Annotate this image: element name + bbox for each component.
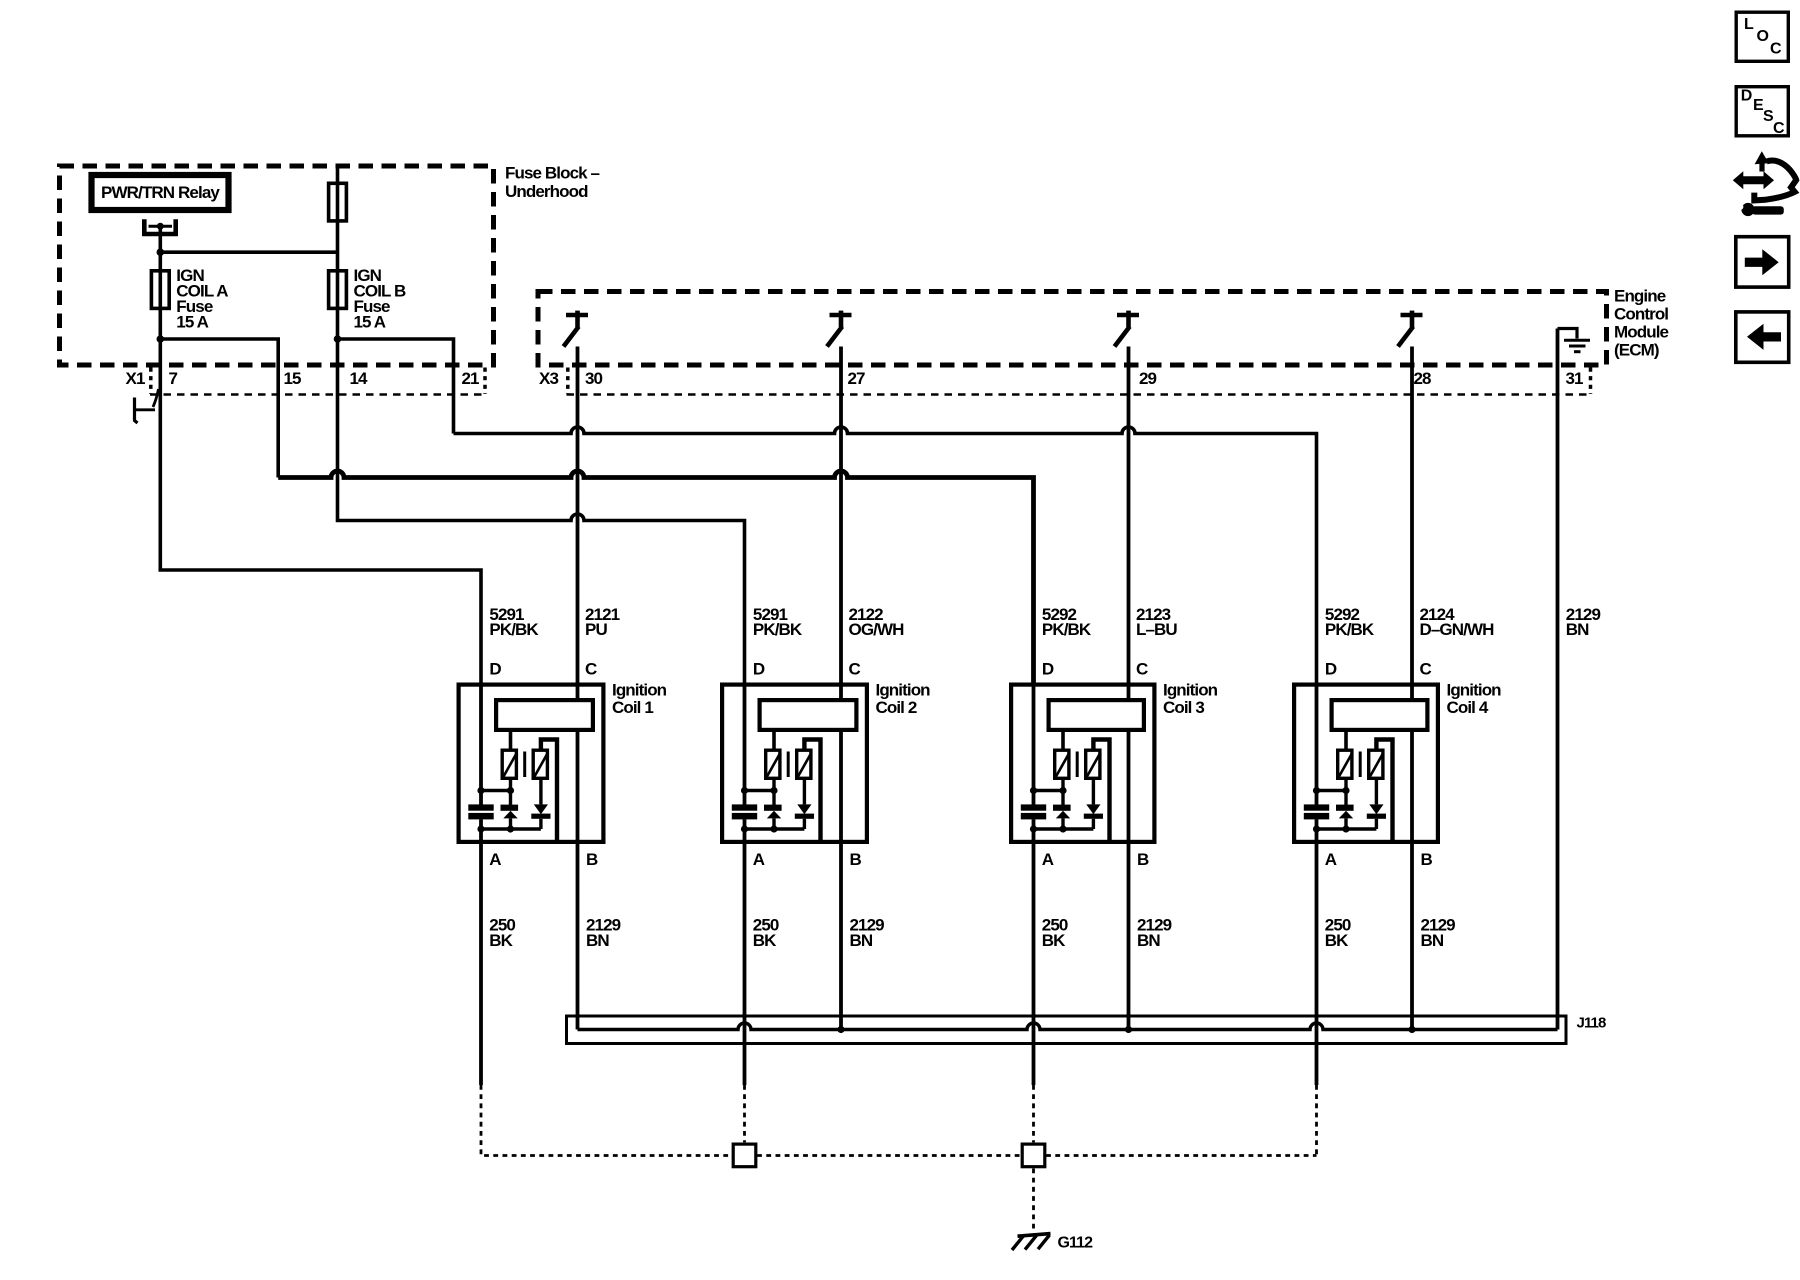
label: Ignition Coil 4 [1447, 681, 1502, 717]
svg-text:C: C [1773, 120, 1785, 137]
label: IGN COIL A Fuse 15 A [176, 266, 228, 332]
junction dot fuse A output [157, 335, 165, 343]
svg-text:Engine: Engine [1614, 287, 1666, 306]
svg-text:28: 28 [1414, 369, 1432, 388]
svg-text:Ignition: Ignition [612, 681, 667, 700]
junction dot at relay feed split [157, 248, 165, 256]
svg-text:Underhood: Underhood [505, 182, 588, 201]
in-line connector symbol on circuit 5291 at X1 pin 7 [133, 389, 159, 423]
svg-text:7: 7 [169, 369, 178, 388]
svg-text:D: D [1042, 659, 1054, 678]
connector tick X1 [149, 368, 153, 395]
svg-text:BN: BN [1566, 620, 1589, 639]
wire: coil 2 pin A ground lead (circuit 250 BK) [743, 844, 747, 1085]
svg-text:B: B [586, 850, 598, 869]
svg-text:PK/BK: PK/BK [753, 620, 803, 639]
svg-text:J118: J118 [1577, 1014, 1606, 1031]
svg-text:PU: PU [585, 620, 607, 639]
connector row separator (thin dashed) under fuse block [150, 393, 486, 395]
svg-text:PK/BK: PK/BK [1325, 620, 1375, 639]
label: IGN COIL B Fuse 15 A [354, 266, 407, 332]
icon: flow/navigation arrows with wrench [1733, 151, 1796, 216]
svg-text:D: D [1325, 659, 1337, 678]
dashed ground lead from coil 2 pin A [743, 1085, 746, 1142]
svg-text:C: C [1136, 659, 1148, 678]
connector row separator (thin dashed) under ECM [567, 393, 1593, 395]
svg-text:B: B [1137, 850, 1149, 869]
wire: fuse A pin 15 branch down [160, 339, 278, 478]
splice J118 internal bus wire with hops over coil A leads [578, 1023, 1558, 1029]
ECM driver (output transistor) pin 27 [827, 311, 852, 347]
svg-text:D: D [489, 659, 501, 678]
pin letter labels coil 4 [1325, 659, 1433, 869]
ECM driver (output transistor) pin 29 [1115, 311, 1140, 347]
Engine Control Module (ECM) dashed boundary [538, 292, 1607, 366]
fuse F1 IGN COIL A Fuse 15 A [151, 271, 169, 309]
label: Engine Control Module (ECM) [1614, 287, 1669, 360]
pin labels ECM connector X3 [539, 369, 1583, 388]
svg-text:C: C [849, 659, 861, 678]
svg-text:BK: BK [1325, 931, 1349, 950]
svg-text:Coil 3: Coil 3 [1163, 698, 1204, 717]
svg-text:15 A: 15 A [354, 313, 386, 332]
svg-text:PK/BK: PK/BK [489, 620, 539, 639]
svg-text:BK: BK [489, 931, 513, 950]
svg-text:BN: BN [1421, 931, 1444, 950]
svg-text:D: D [1741, 88, 1752, 105]
svg-text:PWR/TRN Relay: PWR/TRN Relay [101, 183, 220, 202]
label: 250 BK / 2129 BN below coil 2 [753, 916, 884, 950]
svg-text:BK: BK [753, 931, 777, 950]
svg-text:21: 21 [462, 369, 480, 388]
svg-text:30: 30 [585, 369, 603, 388]
pin letter labels coil 1 [489, 659, 598, 869]
icon: back arrow box [1736, 312, 1789, 362]
junction dot coil 3 B at J118 [1125, 1026, 1132, 1033]
wire: fuse B pin 14 to ignition coil 2 pin D [338, 339, 745, 683]
wire: relay feed to coil B branch [160, 250, 337, 254]
ignition coil 1 [459, 683, 604, 1030]
wire: pin 15 run to ignition coil 3 pin D (thick, hops over crossing wires) [278, 471, 1033, 683]
relay K1 PWR/TRN Relay [92, 175, 229, 210]
svg-text:(ECM): (ECM) [1614, 341, 1659, 360]
ground connector (coil 2 lead) [733, 1144, 756, 1167]
svg-text:X1: X1 [126, 369, 145, 388]
junction dot coil 2 B at J118 [837, 1026, 844, 1033]
icon: DESC box [1736, 87, 1788, 137]
svg-text:15: 15 [284, 369, 302, 388]
svg-text:D: D [753, 659, 765, 678]
svg-text:B: B [850, 850, 862, 869]
label: Ignition Coil 3 [1163, 681, 1218, 717]
svg-text:B: B [1421, 850, 1433, 869]
wire circuit labels above ignition coils [489, 605, 1600, 639]
label: 250 BK / 2129 BN below coil 3 [1042, 916, 1172, 950]
fuse element upper on coil B line [329, 183, 347, 221]
fuse F2 IGN COIL B Fuse 15 A [329, 271, 347, 309]
svg-text:D–GN/WH: D–GN/WH [1420, 620, 1495, 639]
connector tick right of pin 31 [1589, 368, 1593, 395]
icon: LOC box [1736, 12, 1788, 61]
wire: fuse B pin 21 branch [338, 339, 454, 434]
junction dot fuse B output [334, 335, 342, 343]
svg-text:Control: Control [1614, 305, 1668, 324]
ECM driver (output transistor) pin 28 [1398, 311, 1423, 347]
dashed lead from connector down to ground G112 [1032, 1169, 1035, 1232]
wire: coil 4 pin A ground lead (circuit 250 BK) [1315, 844, 1319, 1085]
svg-text:14: 14 [350, 369, 369, 388]
wire: fuse A pin 7 to ignition coil 1 pin D (circuit 5291) [160, 339, 481, 683]
label: 250 BK / 2129 BN below coil 1 [489, 916, 620, 950]
svg-text:Ignition: Ignition [1163, 681, 1218, 700]
ignition coil 3 [1011, 683, 1154, 1030]
dashed ground lead from coil 4 pin A [1315, 1085, 1318, 1156]
svg-text:L: L [1744, 16, 1754, 33]
wire: coil 3 pin A ground lead (circuit 250 BK) [1032, 844, 1036, 1085]
wire: pin 21 run to ignition coil 4 pin D [454, 427, 1317, 683]
svg-text:Ignition: Ignition [876, 681, 931, 700]
wire: ECM pin 28 to coil 4 pin C (circuit 2124 D-GN/WH) [1410, 347, 1414, 703]
svg-text:Module: Module [1614, 323, 1669, 342]
svg-text:L–BU: L–BU [1136, 620, 1177, 639]
wire: coil 1 pin A ground lead (circuit 250 BK) [479, 844, 483, 1085]
svg-text:Ignition: Ignition [1447, 681, 1502, 700]
svg-text:Coil 1: Coil 1 [612, 698, 653, 717]
wire: ECM pin 29 to coil 3 pin C (circuit 2123 L-BU) [1127, 347, 1131, 703]
svg-text:BK: BK [1042, 931, 1066, 950]
svg-text:27: 27 [848, 369, 866, 388]
svg-text:A: A [489, 850, 501, 869]
svg-text:C: C [585, 659, 597, 678]
svg-text:Fuse Block –: Fuse Block – [505, 164, 600, 183]
svg-text:31: 31 [1566, 369, 1584, 388]
svg-text:C: C [1770, 41, 1782, 58]
wire: IGN COIL B feed from block top [336, 166, 340, 339]
svg-text:PK/BK: PK/BK [1042, 620, 1092, 639]
wire: relay output down through IGN COIL A fuse [159, 226, 163, 339]
label: Fuse Block - Underhood [505, 164, 600, 201]
svg-text:29: 29 [1139, 369, 1157, 388]
svg-text:15 A: 15 A [176, 313, 208, 332]
svg-text:Coil 2: Coil 2 [876, 698, 917, 717]
ECM internal ground symbol (pin 31) [1558, 329, 1591, 352]
dashed ground bus segment to coil 4 lead [1046, 1154, 1316, 1157]
svg-text:BN: BN [1137, 931, 1160, 950]
label: Ignition Coil 1 [612, 681, 667, 717]
pin letter labels coil 3 [1042, 659, 1149, 869]
relay output terminal bracket [144, 219, 175, 234]
svg-text:O: O [1757, 28, 1769, 45]
svg-text:A: A [753, 850, 765, 869]
label: 250 BK / 2129 BN below coil 4 [1325, 916, 1455, 950]
fuse block - underhood (dashed boundary) [60, 166, 494, 365]
pin letter labels coil 2 [753, 659, 862, 869]
svg-text:C: C [1420, 659, 1432, 678]
dashed ground lead from coil 1 pin A [481, 1085, 732, 1156]
ignition coil 2 [722, 683, 867, 1030]
icon: forward arrow box [1736, 237, 1789, 287]
dashed ground lead from coil 3 pin A [1032, 1085, 1035, 1142]
ground connector (coil 3 lead, to G112) [1022, 1144, 1045, 1167]
svg-text:BN: BN [850, 931, 873, 950]
svg-text:BN: BN [586, 931, 609, 950]
splice pack J118 outline [567, 1016, 1567, 1044]
connector tick X3 [566, 368, 570, 395]
svg-text:A: A [1042, 850, 1054, 869]
ECM driver (output transistor) pin 30 [564, 311, 589, 347]
svg-text:X3: X3 [539, 369, 558, 388]
wire: ECM pin 27 to coil 2 pin C (circuit 2122 OG/WH) [839, 347, 843, 703]
wire: ECM pin 31 ground circuit 2129 BN down to splice J118 [1556, 329, 1560, 1030]
dashed ground bus segment between connectors [757, 1154, 1021, 1157]
junction dot coil 4 B at J118 [1408, 1026, 1415, 1033]
label: Ignition Coil 2 [876, 681, 931, 717]
svg-text:Coil 4: Coil 4 [1447, 698, 1489, 717]
ignition coil 4 [1294, 683, 1438, 1030]
pin labels fuse block connector X1 [126, 369, 480, 388]
wire: ECM pin 30 to coil 1 pin C (circuit 2121 PU) [576, 347, 580, 703]
connector tick right of pin 21 [483, 368, 487, 395]
svg-text:G112: G112 [1058, 1235, 1094, 1252]
svg-text:A: A [1325, 850, 1337, 869]
ground symbol G112 [1012, 1234, 1051, 1250]
svg-text:OG/WH: OG/WH [849, 620, 905, 639]
